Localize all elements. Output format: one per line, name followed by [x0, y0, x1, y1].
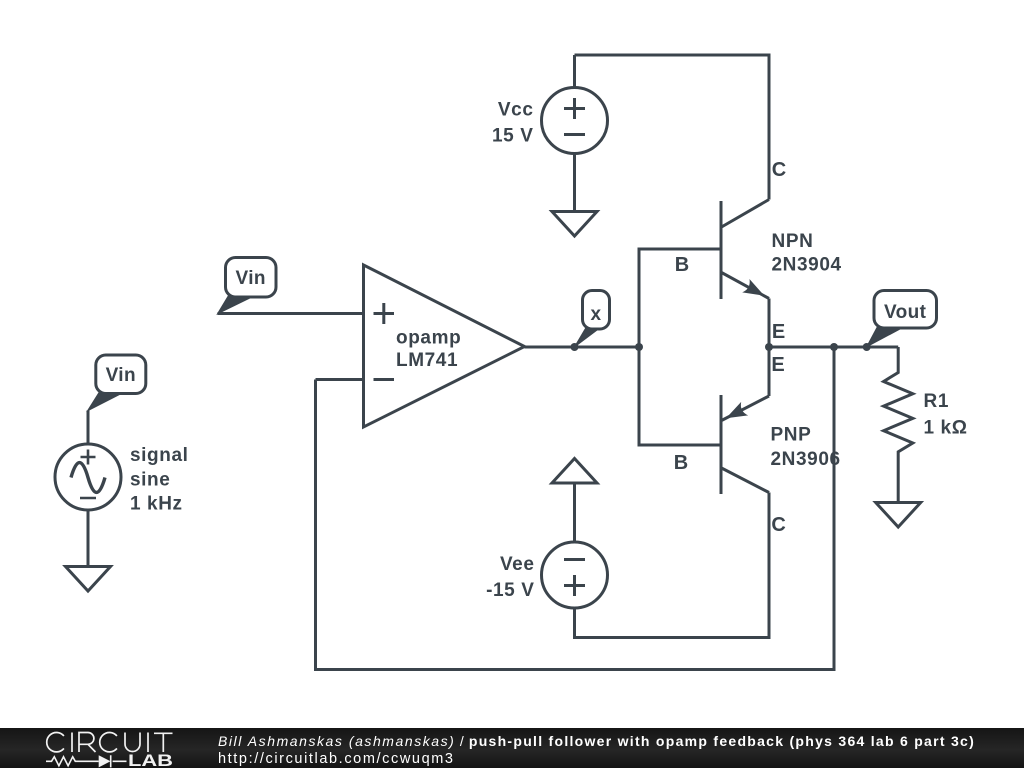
- wire Vcc bottom lead: [573, 154, 576, 212]
- svg-text:1 kΩ: 1 kΩ: [924, 418, 968, 439]
- wire Vee bottom to PNP collector: [575, 493, 770, 638]
- svg-text:Vcc: Vcc: [498, 100, 534, 121]
- svg-text:Vee: Vee: [500, 554, 535, 575]
- flag node x: [575, 291, 610, 348]
- ground below R1: [876, 503, 921, 528]
- voltage source V2 Vee: [542, 542, 608, 608]
- wire signal bottom lead: [87, 510, 90, 566]
- ground below Vcc: [552, 212, 597, 237]
- transistor Q1 NPN 2N3904: [721, 200, 769, 348]
- transistor Q2 PNP 2N3906: [721, 347, 769, 494]
- label Q2 PNP 2N3906: [771, 424, 841, 470]
- wire emitters node to R1: [769, 346, 898, 349]
- label V2 Vee -15 V: [486, 554, 534, 601]
- flag Vout: [867, 291, 937, 347]
- svg-text:opamp: opamp: [396, 328, 461, 349]
- flag Vin at op-amp input: [218, 258, 277, 314]
- wire Vcc top lead: [573, 55, 576, 88]
- label R1 1 kOhm: [924, 391, 968, 439]
- svg-text:2N3904: 2N3904: [772, 254, 842, 275]
- svg-text:E: E: [771, 354, 784, 376]
- wire feedback loop: [316, 347, 835, 670]
- node base-loop junction dot: [635, 343, 643, 351]
- wire signal top lead: [87, 411, 90, 445]
- flipped ground above Vee: [552, 459, 597, 484]
- label V1 Vcc 15 V: [492, 100, 534, 147]
- svg-text:C: C: [772, 159, 786, 181]
- node Vout junction dot: [863, 343, 871, 351]
- svg-text:-15 V: -15 V: [486, 580, 534, 601]
- svg-text:Vin: Vin: [235, 268, 265, 289]
- svg-text:B: B: [675, 254, 689, 276]
- svg-text:1 kHz: 1 kHz: [130, 494, 183, 515]
- label V3 signal sine 1 kHz: [130, 445, 189, 515]
- svg-text:Vin: Vin: [106, 365, 136, 386]
- node emitters junction dot: [765, 343, 773, 351]
- svg-text:signal: signal: [130, 445, 189, 466]
- wire op-amp output to node x: [525, 346, 640, 349]
- wire base loop: [639, 249, 721, 445]
- svg-text:LM741: LM741: [396, 350, 458, 371]
- svg-text:Vout: Vout: [884, 302, 927, 323]
- voltage source V3 signal sine: [55, 444, 121, 510]
- label Q1 NPN 2N3904: [772, 231, 842, 275]
- op-amp U1 LM741: [364, 265, 525, 427]
- node x junction dot: [571, 343, 579, 351]
- flag Vin at signal source: [88, 355, 146, 411]
- wire top rail Vcc to NPN collector: [575, 55, 770, 200]
- voltage source V1 Vcc: [542, 88, 608, 154]
- CircuitLab logo: [30, 728, 220, 768]
- ground below signal source: [66, 567, 111, 592]
- svg-text:sine: sine: [130, 469, 170, 490]
- svg-text:E: E: [772, 321, 785, 343]
- svg-text:C: C: [771, 514, 785, 536]
- svg-text:x: x: [591, 304, 602, 325]
- svg-text:NPN: NPN: [772, 231, 814, 252]
- wire Vee top lead: [573, 484, 576, 542]
- svg-text:2N3906: 2N3906: [771, 449, 841, 470]
- svg-text:R1: R1: [924, 391, 950, 412]
- footer bar: [0, 728, 1024, 768]
- resistor R1: [884, 347, 913, 502]
- wire op-amp noninverting input: [218, 312, 364, 315]
- svg-text:PNP: PNP: [771, 424, 812, 445]
- svg-text:15 V: 15 V: [492, 126, 534, 147]
- label op-amp opamp LM741: [396, 328, 461, 372]
- wire op-amp inverting input: [316, 378, 364, 381]
- svg-text:LAB: LAB: [128, 751, 173, 768]
- node feedback junction dot: [830, 343, 838, 351]
- svg-text:B: B: [674, 452, 688, 474]
